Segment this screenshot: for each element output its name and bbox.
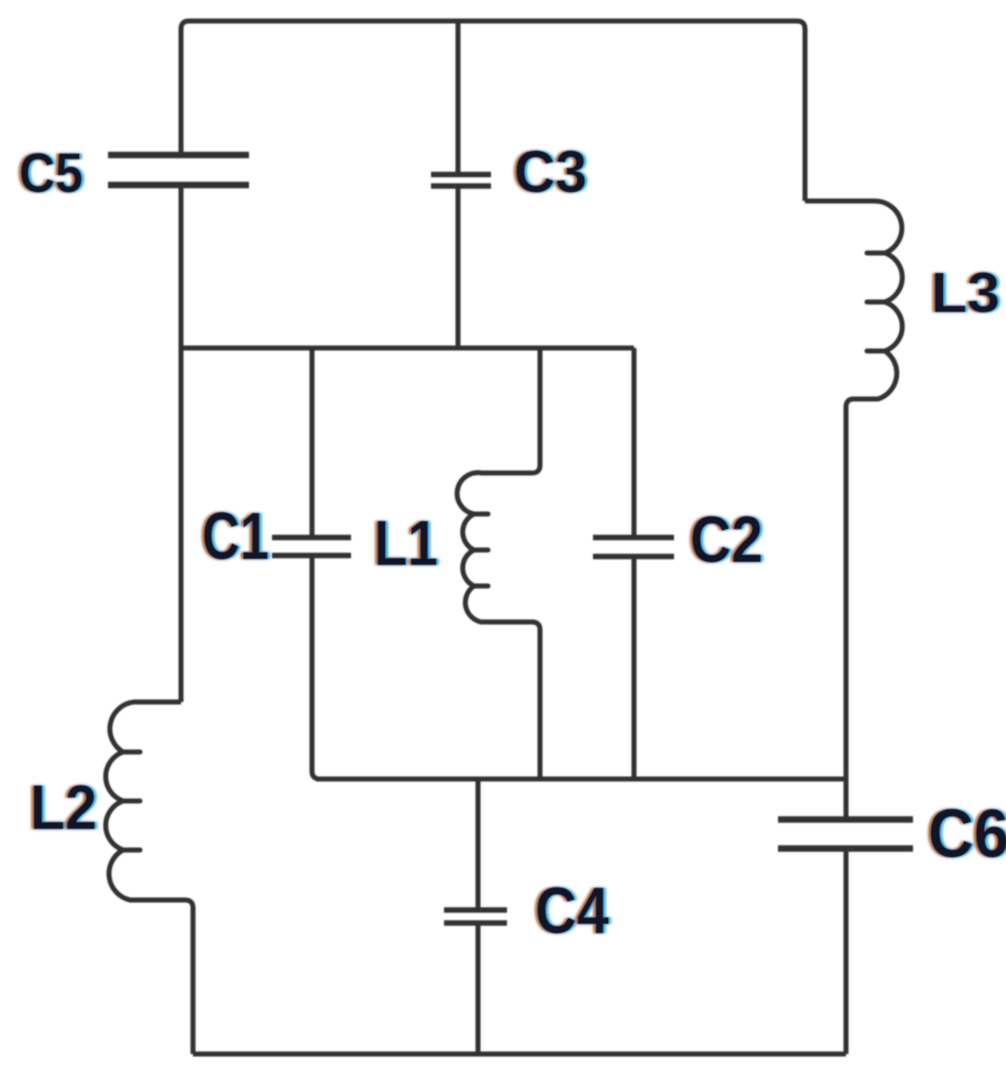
wire left vertical below C5: [179, 185, 184, 702]
inductor L3: [805, 201, 902, 817]
svg-text:C2: C2: [690, 502, 763, 576]
wire below C6: [844, 851, 849, 1054]
wire top rail with left and right drops: [181, 21, 805, 201]
svg-text:C1: C1: [202, 499, 269, 574]
svg-text:C4: C4: [535, 873, 609, 947]
wire C1 branch lower: [312, 558, 320, 779]
wire inner bottom rail: [316, 777, 846, 782]
capacitor C1: [272, 538, 351, 556]
svg-text:L3: L3: [931, 261, 1000, 325]
inductor L2: [106, 702, 193, 1054]
capacitor C4: [444, 910, 507, 923]
capacitor C6: [778, 820, 913, 849]
wire bottom rail: [193, 1052, 846, 1057]
wire C2 branch lower: [632, 558, 637, 779]
svg-text:C3: C3: [514, 139, 587, 205]
capacitor C5: [108, 155, 249, 185]
wire C4 branch lower: [476, 925, 481, 1054]
wire C3 branch upper: [456, 21, 461, 177]
wire C1 branch upper: [310, 348, 315, 535]
capacitor C2: [593, 538, 674, 557]
wire C4 branch upper: [476, 779, 481, 908]
svg-text:L2: L2: [30, 773, 97, 843]
wire C2 branch upper: [632, 348, 637, 535]
wire second rail: [181, 346, 634, 351]
svg-text:L1: L1: [374, 507, 438, 579]
capacitor C3: [431, 175, 491, 187]
wire C3 branch lower: [456, 184, 461, 348]
svg-text:C5: C5: [19, 141, 83, 204]
svg-text:C6: C6: [928, 795, 1006, 872]
inductor L1: [457, 348, 540, 779]
